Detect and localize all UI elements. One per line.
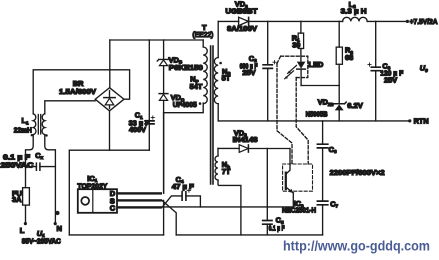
svg-text:5T: 5T: [222, 74, 231, 83]
wire rail VD2 to L2: [249, 20, 343, 22]
svg-text:LED: LED: [309, 60, 324, 69]
svg-text:2200PF/600V×2: 2200PF/600V×2: [330, 168, 385, 177]
transformer primary winding Np: [202, 40, 204, 47]
svg-text:250VAC: 250VAC: [1, 160, 35, 169]
optocoupler IC2 phototransistor: [286, 149, 290, 174]
wire C4 right to control node: [186, 196, 201, 207]
svg-text:P6KE150: P6KE150: [169, 63, 203, 72]
IC1 TOP202Y package outline: [78, 189, 117, 213]
wire choke left bottom to L column: [26, 135, 34, 223]
dashed link line A: [277, 63, 292, 164]
plus mark C3: [368, 63, 371, 66]
svg-text:(EE22): (EE22): [192, 30, 213, 39]
svg-text:N5995B: N5995B: [306, 110, 328, 119]
diode VDB P6KE150 (TVS): [157, 58, 169, 61]
fuse FU 3A: [23, 188, 30, 205]
LED of optocoupler: [297, 62, 306, 69]
choke core: [38, 115, 40, 135]
LED dashed enclosure: [277, 56, 308, 77]
inductor L1 common-mode choke right winding: [42, 114, 45, 135]
resistor R1 39: [300, 21, 302, 33]
emitter arrowhead: [289, 189, 293, 193]
svg-text:8A/100V: 8A/100V: [227, 24, 257, 33]
bridge internal diode: [109, 91, 111, 109]
terminal N dot: [54, 222, 57, 225]
RTN terminal dot: [408, 119, 411, 122]
wire Cx right: [40, 166, 56, 168]
wire RTN rail: [218, 120, 410, 122]
package hole: [81, 197, 89, 205]
plus mark C2: [273, 61, 276, 64]
wire choke N line to bridge AC (left vertex): [45, 101, 95, 114]
svg-text:UF4005: UF4005: [173, 100, 197, 109]
wire source S slant down to ground: [162, 200, 176, 235]
output terminal dot: [406, 20, 409, 23]
capacitor Cx plates: [36, 163, 40, 170]
capacitor C4 47uF plates: [182, 192, 186, 201]
svg-text:IN4148: IN4148: [233, 135, 258, 144]
wire bias top: Nb to VD3: [218, 147, 239, 149]
wire choke right bottom to N column: [45, 135, 56, 223]
pin S bar: [117, 199, 162, 201]
svg-text:0.1 µ F: 0.1 µ F: [269, 224, 285, 233]
wire secondary top rail: [218, 20, 239, 22]
resistor R2 68: [338, 21, 340, 47]
wire rail L2 to output: [367, 20, 407, 22]
inductor L2 3.3uH: [343, 17, 368, 21]
capacitor C5 0.1uF: [266, 149, 268, 221]
wire primary bottom to drain node: [164, 103, 204, 113]
svg-text:*: *: [56, 210, 59, 219]
dashed link line B: [296, 78, 308, 164]
transformer core: [211, 46, 213, 184]
svg-text:85V~265VAC: 85V~265VAC: [22, 236, 62, 245]
svg-text:N: N: [57, 224, 62, 233]
wire ground bus left segment: [69, 234, 163, 236]
wire Cx left: [26, 166, 37, 168]
zener diode VDZ2 6.2V N5995B: [332, 102, 346, 105]
wire drain: D pin up to drain node: [163, 113, 165, 194]
capacitor C3 120uF 25V: [375, 21, 377, 67]
wire control long horizontal: [164, 206, 294, 208]
diode VD2 UGB8BT: [239, 17, 249, 25]
capacitor C7 2200pF: [317, 201, 327, 205]
svg-text:+7.5V/2A: +7.5V/2A: [410, 17, 438, 26]
snubber branch vertical: [163, 40, 165, 59]
svg-text:47 µ F: 47 µ F: [172, 182, 194, 191]
svg-text:3A: 3A: [12, 195, 22, 204]
wire LED cathode to zener column: [301, 85, 339, 87]
wire VD3 cathode to opto collector: [248, 148, 290, 150]
optocoupler dashed box: [283, 164, 313, 191]
diode VDC UF4005: [159, 93, 168, 95]
svg-text:22mH: 22mH: [14, 126, 32, 135]
svg-text:68: 68: [345, 53, 353, 62]
plus mark C4: [187, 189, 190, 192]
svg-text:39: 39: [292, 40, 300, 49]
svg-text:25V: 25V: [384, 75, 397, 84]
wire DC+ rail primary top: [110, 39, 203, 41]
terminal L dot: [24, 222, 27, 225]
capacitor C1 33uF 400V: [148, 40, 150, 121]
wire bridge bottom DC- to ground left rail: [69, 111, 109, 235]
pin D bar: [117, 192, 162, 194]
svg-text:54T: 54T: [190, 82, 203, 91]
primary phase dot: [199, 102, 202, 105]
svg-text:400V: 400V: [129, 125, 146, 134]
svg-text:L: L: [20, 226, 25, 235]
svg-text:C: C: [110, 204, 116, 213]
svg-text:NEC2501-H: NEC2501-H: [282, 206, 316, 215]
transformer secondary winding Ns: [217, 21, 219, 57]
pin C bar: [117, 206, 162, 208]
choke phase dot left: [31, 134, 33, 136]
wire choke L line to bridge AC (right vertex): [33, 70, 129, 114]
inductor L1 common-mode choke left winding: [33, 114, 36, 135]
svg-text:6.2V: 6.2V: [347, 101, 364, 110]
plus mark C1: [151, 116, 154, 119]
capacitor C2 680uF 25V: [267, 21, 269, 64]
secondary phase dot: [219, 62, 222, 65]
wire S vertical to ground bus: [163, 200, 165, 235]
wire control slant up to C4: [162, 196, 182, 208]
svg-text:1.5A/600V: 1.5A/600V: [59, 87, 96, 96]
wire bridge top to rail: [109, 40, 111, 88]
capacitor C6 2200pF: [322, 121, 324, 144]
svg-text:http://www.go-gddq.com: http://www.go-gddq.com: [283, 239, 430, 254]
svg-text:7T: 7T: [222, 167, 231, 176]
wire ground horizontal to C1: [110, 149, 150, 151]
svg-text:UGB8BT: UGB8BT: [225, 7, 258, 16]
bridge rectifier BR diamond: [95, 88, 124, 111]
choke phase dot right: [45, 134, 47, 136]
svg-text:3.3 µ H: 3.3 µ H: [341, 7, 367, 16]
svg-text:25V: 25V: [242, 68, 255, 77]
wire ground bus right segment: [176, 234, 322, 236]
LED emission arrows: [285, 65, 297, 78]
transformer bias winding Nb: [217, 148, 219, 156]
diode VD3 1N4148: [239, 145, 248, 153]
svg-text:RTN: RTN: [414, 117, 429, 126]
